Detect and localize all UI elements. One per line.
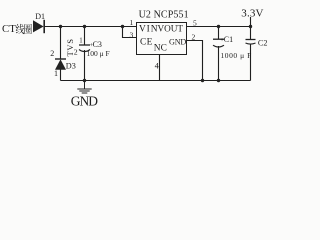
svg-text:GND: GND bbox=[169, 38, 186, 47]
svg-text:GND: GND bbox=[71, 94, 98, 109]
wire CE pin jog bbox=[123, 27, 137, 38]
svg-text:C2: C2 bbox=[258, 38, 268, 47]
svg-text:D1: D1 bbox=[35, 12, 45, 21]
svg-text:NC: NC bbox=[154, 44, 167, 54]
wire NC pin down bbox=[159, 55, 161, 81]
junction node ground / C3 bottom bbox=[83, 79, 86, 82]
svg-text:C1: C1 bbox=[224, 35, 233, 44]
svg-text:100 μ F: 100 μ F bbox=[87, 49, 110, 58]
capacitor C3 bbox=[79, 45, 90, 52]
junction node C1 top bbox=[217, 25, 220, 28]
svg-text:2: 2 bbox=[192, 33, 196, 42]
svg-text:CE: CE bbox=[140, 38, 153, 48]
junction node GND pin to rail bbox=[201, 79, 204, 82]
svg-text:1: 1 bbox=[79, 37, 82, 44]
wire C3 branch lower bbox=[84, 50, 86, 81]
junction node C3 top bbox=[83, 25, 86, 28]
wire main rail left bbox=[45, 26, 137, 28]
label CT coil (CT xian quan) bbox=[2, 23, 32, 35]
wire TVS branch upper bbox=[60, 27, 62, 60]
svg-text:1: 1 bbox=[130, 18, 134, 27]
capacitor C2 bbox=[246, 40, 256, 45]
svg-text:1: 1 bbox=[54, 69, 58, 78]
svg-text:C3: C3 bbox=[93, 40, 102, 49]
wire ground rail bottom bbox=[61, 80, 251, 82]
svg-text:2: 2 bbox=[74, 48, 78, 57]
svg-text:VIN: VIN bbox=[139, 24, 158, 34]
svg-text:3.3V: 3.3V bbox=[241, 8, 263, 20]
capacitor C1 bbox=[213, 39, 224, 47]
wire VOUT rail right bbox=[187, 26, 251, 28]
svg-text:4: 4 bbox=[155, 61, 160, 71]
svg-text:U2 NCP551: U2 NCP551 bbox=[139, 10, 189, 21]
wire C1 branch upper bbox=[218, 27, 220, 40]
wire C3 branch upper bbox=[84, 27, 86, 46]
svg-text:D3: D3 bbox=[66, 62, 76, 71]
junction node CE tap bbox=[121, 25, 124, 28]
TVS diode D3 bbox=[55, 59, 66, 70]
wire C2 branch lower bbox=[250, 44, 252, 81]
diode D1 bbox=[33, 20, 44, 33]
wire C2 branch upper bbox=[250, 27, 252, 40]
svg-text:3: 3 bbox=[130, 31, 134, 40]
svg-text:1000 μ F: 1000 μ F bbox=[221, 51, 252, 60]
junction node D3 top bbox=[59, 25, 62, 28]
junction node C1 bottom bbox=[217, 79, 220, 82]
svg-text:VOUT: VOUT bbox=[158, 23, 184, 33]
ground bbox=[77, 81, 91, 94]
wire C1 branch lower bbox=[218, 46, 220, 81]
wire TVS branch lower bbox=[60, 70, 62, 81]
svg-text:CT: CT bbox=[2, 23, 16, 35]
junction node 3.3V / C2 top bbox=[249, 25, 252, 28]
wire GND pin jog bbox=[187, 41, 203, 81]
svg-text:2: 2 bbox=[50, 49, 54, 58]
svg-text:5: 5 bbox=[193, 18, 197, 27]
regulator U2 NCP551 box bbox=[137, 23, 187, 55]
wire 3.3V supply tick bbox=[250, 17, 252, 27]
